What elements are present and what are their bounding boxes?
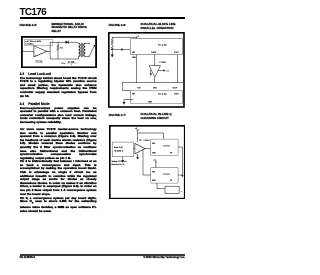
svg-text:TA 4054-5: TA 4054-5: [114, 149, 124, 152]
svg-text:TC170: TC170: [162, 145, 169, 147]
svg-text:Voltage 2.8 kW = A: Voltage 2.8 kW = A: [111, 160, 127, 163]
svg-text:4: 4: [138, 36, 139, 38]
svg-text:TC 170: TC 170: [158, 92, 167, 96]
svg-text:+: +: [180, 190, 182, 192]
svg-text:TC170: TC170: [162, 173, 169, 175]
svg-text:VOUT: VOUT: [174, 93, 180, 95]
svg-text:VOUT: VOUT: [173, 87, 179, 89]
svg-text:TC 170: TC 170: [158, 43, 167, 47]
svg-text:R L: R L: [60, 47, 64, 49]
svg-text:VIN: VIN: [151, 142, 155, 144]
svg-text:GND: GND: [153, 87, 158, 89]
svg-text:VIN: VIN: [132, 52, 136, 54]
svg-text:TC176: TC176: [35, 60, 43, 63]
svg-text:LT1013: LT1013: [143, 140, 149, 142]
svg-text:VOUT: VOUT: [174, 52, 180, 54]
svg-text:GND: GND: [151, 179, 156, 181]
svg-text:SHDN: SHDN: [151, 52, 157, 54]
svg-text:VIN: VIN: [132, 93, 136, 95]
svg-text:LT1007: LT1007: [160, 62, 167, 64]
svg-text:FB: FB: [169, 179, 172, 181]
svg-text:t: t: [70, 63, 71, 66]
svg-text:FB: FB: [169, 152, 172, 154]
svg-text:VIN: VIN: [151, 171, 155, 173]
svg-text:GND: GND: [148, 101, 153, 103]
svg-text:−: −: [35, 48, 37, 50]
svg-text:1/2: 1/2: [139, 140, 141, 142]
svg-text:schildline: schildline: [25, 43, 34, 45]
svg-text:VIN: VIN: [138, 87, 142, 89]
svg-text:4T 550: 4T 550: [67, 61, 74, 63]
svg-text:GND: GND: [132, 57, 137, 59]
svg-text:+V: +V: [167, 71, 170, 73]
svg-text:Batts 0-47: Batts 0-47: [114, 145, 123, 148]
svg-text:f O =: f O =: [60, 62, 65, 64]
svg-text:GND: GND: [151, 152, 156, 154]
